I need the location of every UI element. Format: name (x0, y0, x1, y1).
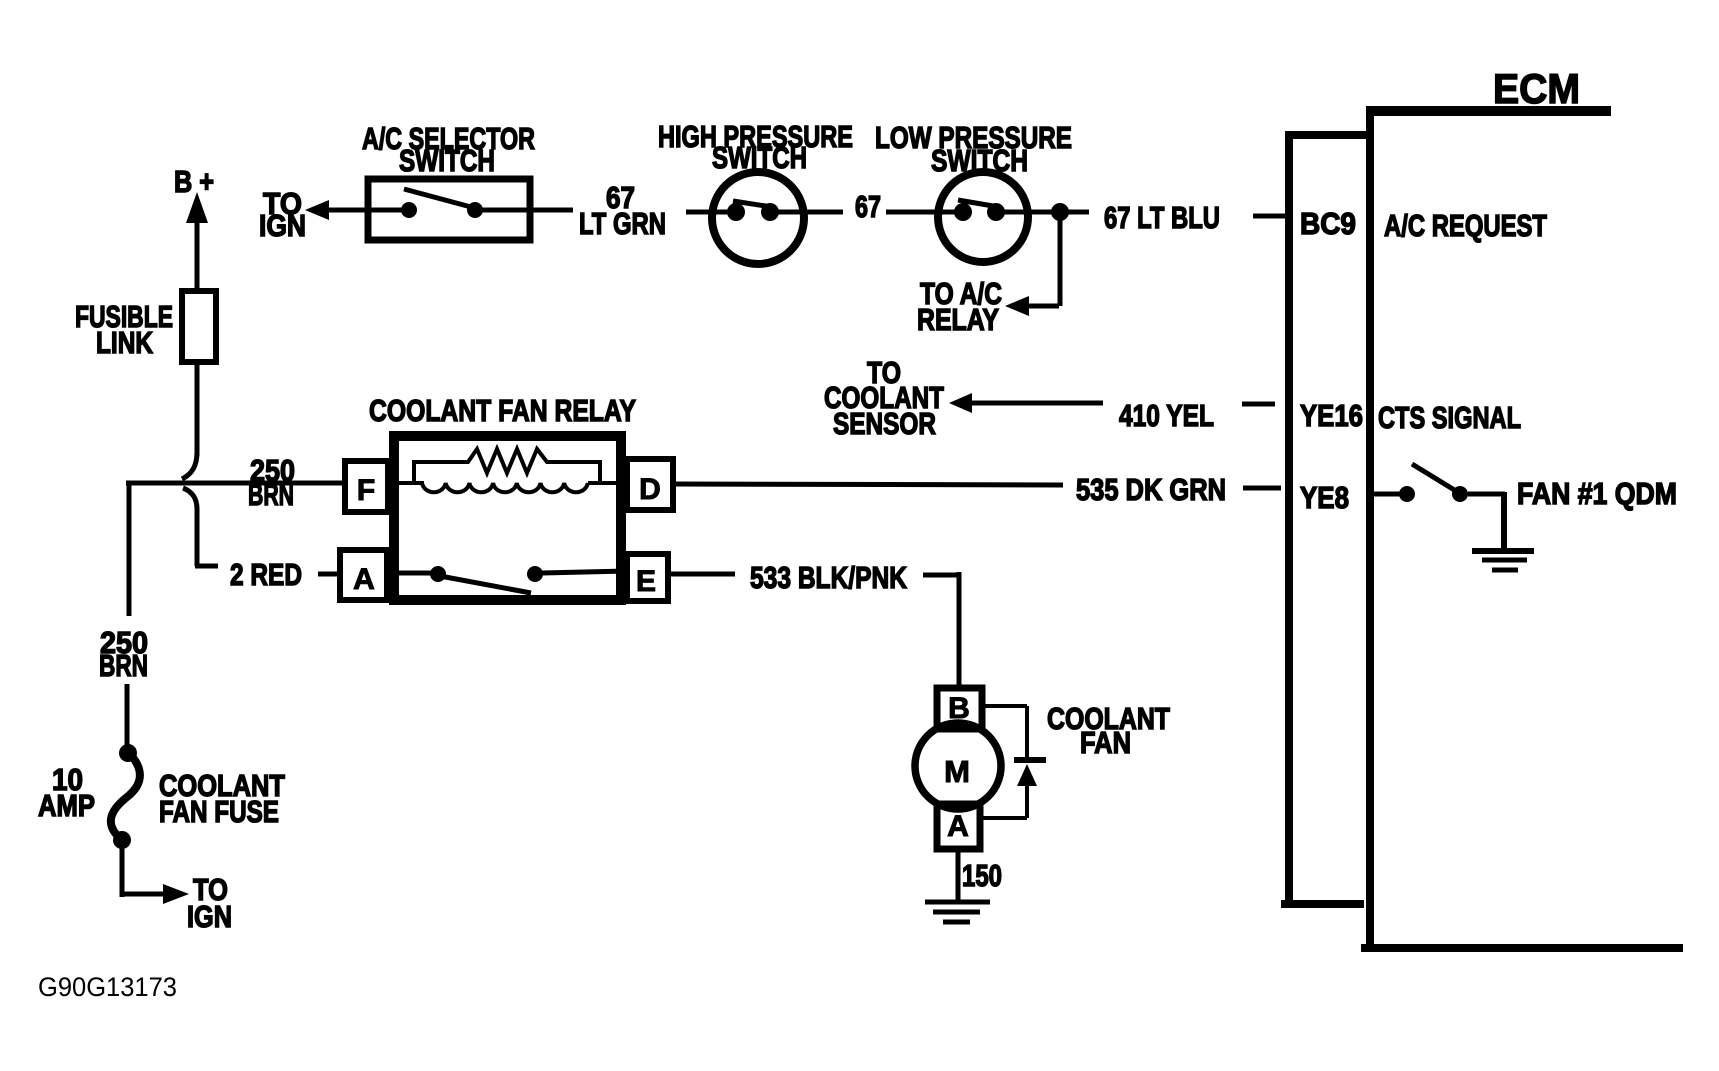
svg-text:535 DK GRN: 535 DK GRN (1076, 472, 1226, 507)
svg-text:F: F (357, 474, 375, 507)
svg-text:COOLANT FAN RELAY: COOLANT FAN RELAY (369, 393, 636, 428)
svg-text:AMP: AMP (38, 788, 95, 823)
svg-text:FAN #1 QDM: FAN #1 QDM (1517, 476, 1677, 511)
svg-text:SENSOR: SENSOR (833, 406, 936, 441)
svg-text:A/C REQUEST: A/C REQUEST (1384, 208, 1547, 243)
svg-text:150: 150 (962, 858, 1002, 893)
svg-text:YE16: YE16 (1300, 398, 1363, 433)
svg-text:SWITCH: SWITCH (931, 143, 1028, 178)
svg-text:SWITCH: SWITCH (399, 143, 495, 178)
svg-text:M: M (944, 754, 970, 789)
svg-text:533 BLK/PNK: 533 BLK/PNK (750, 560, 907, 595)
svg-text:A: A (353, 563, 375, 596)
svg-text:B: B (948, 692, 970, 725)
svg-text:D: D (639, 473, 661, 506)
svg-text:B +: B + (174, 164, 214, 199)
svg-text:LINK: LINK (96, 325, 153, 360)
svg-text:LT GRN: LT GRN (579, 206, 666, 241)
svg-text:FAN FUSE: FAN FUSE (159, 794, 279, 829)
svg-text:67: 67 (855, 189, 881, 224)
svg-text:A: A (947, 810, 969, 843)
svg-text:BRN: BRN (248, 477, 294, 512)
svg-text:67 LT BLU: 67 LT BLU (1104, 200, 1220, 235)
svg-text:BRN: BRN (99, 648, 148, 683)
svg-text:ECM: ECM (1493, 65, 1580, 112)
svg-text:2 RED: 2 RED (230, 557, 302, 592)
svg-text:SWITCH: SWITCH (712, 140, 807, 175)
svg-text:FAN: FAN (1080, 725, 1131, 760)
svg-text:410 YEL: 410 YEL (1119, 398, 1214, 433)
svg-text:IGN: IGN (187, 899, 232, 934)
svg-text:BC9: BC9 (1300, 206, 1356, 241)
svg-text:CTS SIGNAL: CTS SIGNAL (1378, 400, 1521, 435)
svg-text:YE8: YE8 (1300, 480, 1349, 515)
svg-text:IGN: IGN (259, 208, 306, 243)
svg-text:G90G13173: G90G13173 (38, 972, 177, 1002)
svg-text:RELAY: RELAY (917, 302, 999, 337)
svg-text:E: E (636, 565, 656, 598)
